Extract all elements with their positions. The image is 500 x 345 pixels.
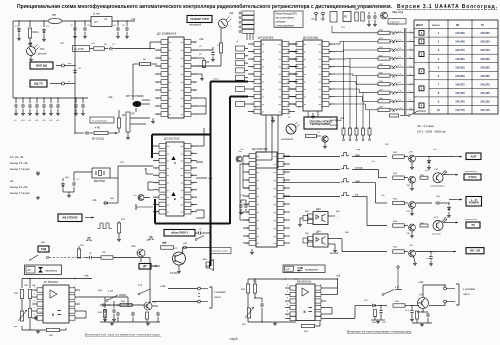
svg-text:вх: вх <box>262 44 264 46</box>
svg-text:Включается при понижении темпе: Включается при понижении температуры. <box>85 333 161 337</box>
capacitor bank C10 <box>22 98 24 103</box>
svg-text:145,175: 145,175 <box>480 108 490 112</box>
svg-text:схема удержания: схема удержания <box>276 26 295 28</box>
wires boxes to D4 top <box>246 33 248 40</box>
svg-text:СТ/СБ: СТ/СБ <box>468 175 476 179</box>
svg-text:1н 270Р: 1н 270Р <box>74 47 84 51</box>
resistor R1 680 <box>29 21 31 27</box>
wires hot right <box>326 287 338 289</box>
arrow and ANT box <box>429 156 454 158</box>
svg-text:145,675: 145,675 <box>455 82 465 86</box>
arrow TX <box>443 222 452 224</box>
top connector boxes <box>242 11 254 15</box>
arrow LCD <box>85 217 94 219</box>
resistor R51 <box>254 279 256 284</box>
svg-text:анф: анф <box>356 148 360 151</box>
transistor V21 power <box>173 252 186 265</box>
transistor V26 <box>409 176 416 183</box>
resistor R35 <box>420 176 428 179</box>
resistor R58 <box>416 308 418 312</box>
svg-text:10: 10 <box>410 108 412 110</box>
svg-text:каналы: каналы <box>432 25 440 27</box>
wire comparator rail <box>22 278 92 280</box>
transistor V8 <box>322 136 328 142</box>
svg-text:вх: вх <box>257 164 259 166</box>
svg-text:145,700: 145,700 <box>455 91 465 95</box>
pulse train clock <box>97 223 112 229</box>
svg-text:1А, 2А, 3А: 1А, 2А, 3А <box>10 155 24 159</box>
svg-text:вх: вх <box>169 50 171 52</box>
svg-text:Д6 561ИР9: Д6 561ИР9 <box>252 147 268 151</box>
output row TX wire <box>283 196 340 198</box>
capacitor C52 <box>380 306 382 310</box>
arrow ST/SB <box>443 174 452 176</box>
ladder row R24 <box>378 66 390 69</box>
ladder row R29 <box>378 108 390 111</box>
svg-text:145,575: 145,575 <box>455 48 465 52</box>
wire hot rail <box>248 278 338 280</box>
capacitor C7b series <box>102 304 103 306</box>
svg-text:- стр.8 -: - стр.8 - <box>228 337 239 341</box>
terminal to power lower <box>444 300 447 303</box>
svg-text:вит: вит <box>14 326 17 328</box>
capacitor C3b <box>73 172 75 181</box>
optocoupler V28 <box>433 173 443 183</box>
resistor R48 <box>146 310 148 312</box>
transistor V22 at D6 <box>236 156 242 162</box>
transistor V25 <box>409 155 416 162</box>
ground D5 <box>312 113 314 115</box>
svg-text:управление: управление <box>465 219 478 221</box>
capacitor C7 series <box>109 48 110 50</box>
svg-text:ЛЕД-УОД: ЛЕД-УОД <box>392 11 403 14</box>
svg-text:вх: вх <box>262 59 264 61</box>
resistor R9 sensor <box>220 28 222 43</box>
ladder row R26 <box>378 83 390 86</box>
resistor R36 <box>393 201 405 204</box>
wire clock top <box>74 171 92 173</box>
sensor bus vertical 1 <box>403 28 405 115</box>
svg-text:термометр: термометр <box>45 270 58 273</box>
resistor R42 <box>28 309 31 318</box>
svg-text:1 кГ: 1 кГ <box>395 286 400 289</box>
ground D6 <box>251 249 253 251</box>
relay K2 box <box>343 12 351 22</box>
svg-text:+12в: +12в <box>160 285 166 288</box>
zener VD at ANT <box>428 157 430 158</box>
resistor R40 under IC <box>47 328 60 331</box>
capacitor bank C15 <box>57 98 59 103</box>
svg-text:управление: управление <box>465 171 478 173</box>
svg-text:выход 14 +5в: выход 14 +5в <box>10 185 28 189</box>
svg-text:выход Т сигнал: выход Т сигнал <box>10 167 30 171</box>
resistor R39L <box>28 290 31 299</box>
svg-text:вх: вх <box>167 190 169 192</box>
svg-text:145,550: 145,550 <box>480 40 490 44</box>
thermistor RK1 <box>20 311 23 321</box>
svg-text:сенсорный: сенсорный <box>281 138 293 141</box>
svg-text:ДУ: ДУ <box>143 264 147 268</box>
sensor pad drop wires <box>343 41 345 129</box>
sensor bus vertical 2 <box>405 28 407 115</box>
svg-text:145,600: 145,600 <box>455 57 465 61</box>
svg-text:вх: вх <box>167 183 169 185</box>
label box switch chain <box>210 248 231 254</box>
svg-text:ПР: ПР <box>52 13 56 17</box>
svg-text:вх: вх <box>167 212 169 214</box>
label box obraz RK55 <box>164 230 195 237</box>
capacitor C2 <box>84 21 86 26</box>
svg-text:вх: вх <box>167 146 169 148</box>
svg-text:выход Т сигнал: выход Т сигнал <box>10 191 30 195</box>
svg-text:вх: вх <box>257 212 259 214</box>
svg-text:КВ 554СА3: КВ 554СА3 <box>297 280 312 284</box>
photo sensor V5 <box>219 19 228 28</box>
svg-text:+5в: +5в <box>229 11 234 15</box>
connector pin XS1 <box>62 64 65 67</box>
resistor R7 RF <box>94 131 108 134</box>
svg-text:1 кГ: 1 кГ <box>138 284 143 287</box>
resistor R18 <box>118 221 120 223</box>
svg-text:СТ: СТ <box>94 20 98 24</box>
svg-text:вх: вх <box>262 104 264 106</box>
label box 2M-CM <box>466 248 484 254</box>
svg-text:жёлтый: жёлтый <box>330 252 339 255</box>
svg-text:вх: вх <box>304 89 306 91</box>
resistor R56 <box>374 308 376 310</box>
capacitor sv1 mid <box>411 306 413 310</box>
band square 4 <box>419 69 424 74</box>
capacitor C5 series <box>85 132 86 134</box>
resistor R6 vertical <box>118 110 120 118</box>
output row ANT wire <box>283 156 340 158</box>
svg-text:вх: вх <box>257 243 259 245</box>
svg-text:вх: вх <box>257 220 259 222</box>
svg-text:вх: вх <box>167 197 169 199</box>
svg-text:Версия 3.1 UA4ATA Волгоград.: Версия 3.1 UA4ATA Волгоград. <box>397 4 498 10</box>
bus thick horizontal over D3 <box>152 134 211 136</box>
ladder row R28 <box>378 100 390 103</box>
svg-text:кн: кн <box>236 41 238 43</box>
switch SA1 <box>30 255 38 260</box>
svg-text:+12в: +12в <box>418 281 424 284</box>
svg-text:ФП ТСОП4836: ФП ТСОП4836 <box>126 94 144 98</box>
svg-text:145,000: 145,000 <box>480 57 490 61</box>
dashed wire <box>49 257 85 259</box>
terminal from 2M section <box>397 266 399 268</box>
svg-text:вх: вх <box>262 52 264 54</box>
connector pin XS2 <box>62 82 65 85</box>
svg-text:при стереофонии: при стереофонии <box>276 17 295 20</box>
svg-text:145,575: 145,575 <box>480 48 490 52</box>
svg-text:вх: вх <box>169 106 171 108</box>
resistor R20 <box>101 256 113 259</box>
svg-text:▾ R6: ▾ R6 <box>95 127 101 130</box>
resistor R44 <box>104 305 106 309</box>
svg-text:2А: 2А <box>10 179 14 183</box>
svg-text:Д5 561ИД1: Д5 561ИД1 <box>303 36 319 40</box>
capacitor C3 <box>117 21 119 26</box>
wire vertical feed <box>74 21 76 133</box>
svg-text:вх: вх <box>262 74 264 76</box>
capacitor bank C13 <box>43 98 45 103</box>
svg-text:вх: вх <box>262 112 264 114</box>
svg-text:вх: вх <box>169 114 171 116</box>
band square 2 <box>419 39 424 44</box>
transistor V20 <box>137 249 145 257</box>
label box sensors of clock <box>304 117 337 129</box>
svg-text:сенсорный: сенсорный <box>189 24 202 27</box>
pulse glyph lower <box>86 238 92 241</box>
capacitor C32 <box>113 301 115 308</box>
LED HL1 yellow <box>27 47 36 56</box>
svg-text:145,500: 145,500 <box>480 31 490 35</box>
ground D2 <box>152 118 154 120</box>
svg-text:145,650: 145,650 <box>455 74 465 78</box>
svg-text:обмен: обмен <box>213 79 220 81</box>
svg-text:вх: вх <box>167 161 169 163</box>
svg-text:вх: вх <box>257 196 259 198</box>
resistor R62 <box>393 304 405 307</box>
wires comparator left <box>21 299 23 311</box>
svg-text:СЕНСОР СТОП: СЕНСОР СТОП <box>190 18 208 21</box>
terminal circles power <box>198 287 201 290</box>
resistor R38r <box>393 224 405 227</box>
label box SENSOR STOP <box>187 16 212 23</box>
svg-text:части: части <box>214 296 221 299</box>
svg-text:по сообщению: по сообщению <box>92 121 107 123</box>
photo sensor V7 <box>286 124 296 134</box>
switch box top <box>388 19 406 25</box>
wires D4 down to D6 <box>265 115 267 152</box>
svg-text:ДК4: ДК4 <box>316 231 321 234</box>
resistor R41 <box>161 246 174 249</box>
svg-text:вх: вх <box>262 82 264 84</box>
relay K1 box <box>330 12 337 23</box>
voltage regulator U STAB <box>91 17 112 27</box>
zener VD3 <box>62 178 64 181</box>
label box VD TX <box>30 80 47 87</box>
optocoupler V47 <box>433 221 443 231</box>
svg-text:вх: вх <box>169 98 171 100</box>
svg-text:3: 3 <box>410 48 411 50</box>
svg-text:вх: вх <box>257 156 259 158</box>
capacitor C50 <box>261 298 263 302</box>
capacitor bank C14 <box>50 98 52 103</box>
bus thick vertical B <box>229 97 231 225</box>
svg-text:Включается при повышении темпе: Включается при повышении температуры. <box>347 330 412 334</box>
svg-text:вх: вх <box>167 175 169 177</box>
capacitor bank extra <box>75 98 77 103</box>
ladder row R21 <box>378 40 390 43</box>
wire top +12V rail <box>13 20 48 22</box>
bus thick vertical A <box>210 82 212 267</box>
wires hot left <box>247 293 249 308</box>
transistor V30 <box>409 224 416 231</box>
svg-text:к силовой: к силовой <box>214 291 226 294</box>
bus thick stub A to D4 <box>211 81 249 83</box>
svg-text:КТ 819: КТ 819 <box>170 272 178 275</box>
svg-text:вх: вх <box>257 172 259 174</box>
resistor R38L <box>20 290 23 299</box>
svg-text:145,075: 145,075 <box>480 82 490 86</box>
svg-text:вх: вх <box>304 67 306 69</box>
svg-text:POWER: POWER <box>469 200 479 204</box>
capacitor bank C12 <box>36 98 38 103</box>
capacitor C6 at D2 <box>196 49 213 51</box>
resistor R33 <box>393 176 405 179</box>
svg-text:вх: вх <box>169 82 171 84</box>
diode V15 <box>371 305 373 307</box>
svg-text:вх: вх <box>167 204 169 206</box>
svg-text:вх: вх <box>257 188 259 190</box>
transistor V6 top <box>381 12 388 19</box>
svg-text:1 АГ: 1 АГ <box>108 290 114 293</box>
resistor R30 <box>306 134 317 137</box>
svg-text:вх: вх <box>169 42 171 44</box>
wire from dashed row down <box>149 258 151 289</box>
svg-text:2М - СМ: 2М - СМ <box>470 249 480 253</box>
resistor R11 <box>361 12 364 21</box>
svg-text:образ РК55 2: образ РК55 2 <box>171 231 189 235</box>
keypad pin boxes <box>236 46 245 51</box>
svg-text:СН.1 - 1000 - 2000 пф: СН.1 - 1000 - 2000 пф <box>417 130 446 134</box>
capacitor C6b <box>85 257 88 259</box>
arrow 2M <box>437 251 448 253</box>
resistor R19 <box>78 246 80 249</box>
label box TX <box>466 222 480 228</box>
capacitor C2b <box>195 232 197 234</box>
crystal box ZQ1 <box>92 168 110 178</box>
ladder row R22 <box>378 48 390 51</box>
resistor R46 <box>120 303 132 306</box>
fuse F1 <box>48 18 62 23</box>
svg-text:RX: RX <box>456 25 460 27</box>
wires D3 right <box>196 145 204 147</box>
svg-text:145,625: 145,625 <box>455 65 465 69</box>
wires D5 bottom to sensor box <box>307 111 309 117</box>
table channel frequencies <box>414 20 498 114</box>
svg-text:вх: вх <box>167 153 169 155</box>
ground D2 pin OBSh <box>196 73 202 75</box>
svg-text:ВЧ К.ВСД: ВЧ К.ВСД <box>92 137 104 141</box>
capacitor C40 <box>430 252 432 255</box>
svg-text:145,500: 145,500 <box>455 31 465 35</box>
wire D3 left pulse input <box>136 206 153 208</box>
zener VD2 <box>43 21 45 27</box>
transistor V29 <box>409 202 416 209</box>
resistor R5 loop <box>196 57 204 59</box>
bracket power <box>456 284 459 305</box>
svg-text:БЕСПНЕТ: БЕСПНЕТ <box>94 180 106 183</box>
svg-text:6: 6 <box>410 74 411 76</box>
fan wires D5 to ladder <box>335 43 340 45</box>
svg-text:вх: вх <box>304 82 306 84</box>
wire to D3 <box>117 166 119 178</box>
svg-text:к силовой: к силовой <box>463 287 475 291</box>
label box L-R POWER <box>466 197 482 207</box>
svg-text:ТХ: ТХ <box>481 25 484 27</box>
connector pins SV1 SV2 <box>315 12 318 15</box>
wire V21 collector <box>182 248 184 254</box>
svg-text:+5в: +5в <box>208 176 213 180</box>
bus thick stub B to D4 <box>230 96 248 98</box>
diode VD8 <box>182 247 184 249</box>
svg-text:...: ... <box>336 215 339 219</box>
label box ST/SB <box>464 174 481 180</box>
capacitor C12 <box>368 12 370 14</box>
capacitor C4 output <box>126 21 128 26</box>
svg-text:вх: вх <box>304 52 306 54</box>
svg-text:ТХ: ТХ <box>471 223 475 227</box>
arrow POWER <box>449 199 456 201</box>
svg-text:вх: вх <box>257 236 259 238</box>
label box VKL VD <box>30 62 53 69</box>
svg-text:+5в: +5в <box>199 37 204 41</box>
caps at D6 left <box>240 200 242 203</box>
svg-text:7: 7 <box>410 82 411 84</box>
capacitor C30 <box>35 316 37 317</box>
band square 4 <box>419 103 424 108</box>
ladder row R23 <box>378 57 390 60</box>
svg-text:+5в: +5в <box>131 244 136 248</box>
inductor L1 box <box>73 46 90 52</box>
note box mode <box>274 11 303 28</box>
svg-text:вх: вх <box>257 204 259 206</box>
diode VD1 <box>18 21 20 26</box>
wire to power terminals <box>152 301 198 303</box>
svg-text:КГ 554СА3: КГ 554СА3 <box>44 280 58 284</box>
ladder row R25 <box>378 74 390 77</box>
svg-text:ВКЛ ВД: ВКЛ ВД <box>36 64 46 68</box>
svg-text:светодиодный: светодиодный <box>430 185 445 188</box>
transistor V9 <box>144 302 152 310</box>
svg-text:145,150: 145,150 <box>480 100 490 104</box>
svg-text:145,100: 145,100 <box>480 91 490 95</box>
svg-text:+5в: +5в <box>108 95 113 99</box>
switch SA2 <box>197 236 204 240</box>
svg-text:ДИАП: ДИАП <box>416 24 423 27</box>
wires comparator right <box>80 296 105 298</box>
resistor R50 <box>247 279 249 284</box>
resistor R52 under <box>302 324 315 327</box>
wire DK4 to 2M row <box>341 239 343 252</box>
bus thick horizontal lower <box>155 223 230 225</box>
ground rail bottom center <box>100 321 160 323</box>
svg-text:ВД ТХ: ВД ТХ <box>34 82 42 86</box>
resistor R39r <box>420 224 428 227</box>
capacitor sv1 b <box>132 305 134 311</box>
resistor R4 <box>94 47 105 50</box>
capacitor C13 <box>427 310 429 312</box>
resistor R10 <box>355 12 358 21</box>
resistor R32 <box>393 155 405 158</box>
svg-text:свободен: свободен <box>276 22 287 24</box>
ground D4 <box>272 117 274 119</box>
output row ST/SB wire <box>283 169 340 171</box>
svg-text:вх: вх <box>304 97 306 99</box>
svg-text:вх: вх <box>169 74 171 76</box>
svg-text:вх: вх <box>169 90 171 92</box>
svg-text:145,050: 145,050 <box>480 74 490 78</box>
terminal to power upper <box>444 287 447 290</box>
bus thick left leg to D3 <box>151 135 153 159</box>
svg-text:чкв вывод +: чкв вывод + <box>388 24 400 26</box>
capacitor bank C9 <box>15 98 17 103</box>
wire IR to D2 <box>130 117 150 119</box>
svg-text:9: 9 <box>410 100 411 102</box>
svg-text:вх: вх <box>257 228 259 230</box>
